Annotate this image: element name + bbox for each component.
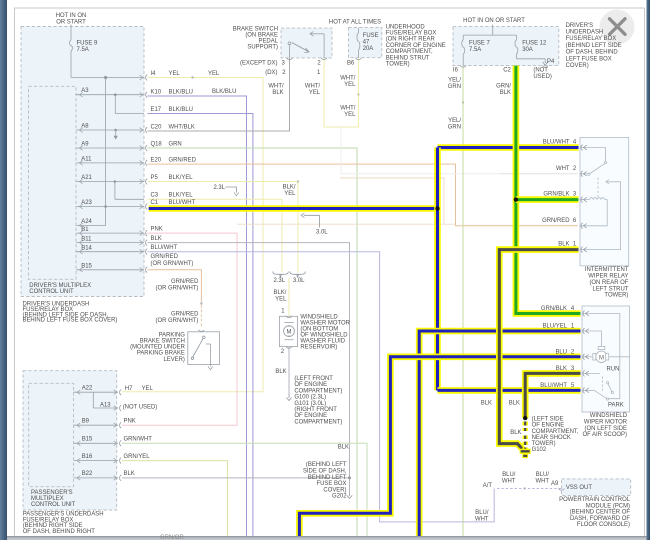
svg-text:LEVER): LEVER) bbox=[163, 357, 184, 363]
svg-text:BLU/: BLU/ bbox=[502, 472, 516, 478]
svg-text:BLK: BLK bbox=[338, 444, 349, 450]
svg-text:I6: I6 bbox=[453, 68, 459, 74]
svg-text:FUSE 7: FUSE 7 bbox=[469, 40, 490, 46]
svg-text:(OR GRN/WHT): (OR GRN/WHT) bbox=[156, 286, 199, 292]
svg-text:COVER): COVER) bbox=[323, 487, 346, 493]
svg-text:COMPARTMENT): COMPARTMENT) bbox=[294, 388, 342, 394]
svg-text:TOWER): TOWER) bbox=[386, 62, 410, 68]
svg-text:COMPARTMENT,: COMPARTMENT, bbox=[532, 429, 579, 435]
svg-text:WHT/: WHT/ bbox=[268, 84, 284, 90]
svg-text:YEL/: YEL/ bbox=[448, 78, 461, 84]
svg-text:POWERTRAIN CONTROL: POWERTRAIN CONTROL bbox=[559, 497, 631, 503]
svg-text:(EXCEPT DX): (EXCEPT DX) bbox=[240, 60, 278, 66]
svg-text:2: 2 bbox=[573, 166, 576, 172]
svg-text:BLK: BLK bbox=[510, 430, 521, 436]
svg-text:BLK: BLK bbox=[500, 90, 511, 96]
svg-text:BRAKE SWITCH: BRAKE SWITCH bbox=[140, 339, 185, 345]
svg-text:BEHIND STRUT: BEHIND STRUT bbox=[386, 55, 430, 61]
svg-text:BLK/BLU: BLK/BLU bbox=[169, 89, 193, 95]
svg-text:30A: 30A bbox=[522, 47, 533, 53]
svg-text:(LEFT SIDE: (LEFT SIDE bbox=[532, 417, 564, 423]
svg-text:(ON REAR OF: (ON REAR OF bbox=[589, 280, 628, 286]
svg-text:B22: B22 bbox=[82, 471, 93, 477]
svg-text:OF ENGINE: OF ENGINE bbox=[294, 413, 327, 419]
svg-text:BLU: BLU bbox=[555, 349, 567, 355]
svg-text:20A: 20A bbox=[363, 46, 374, 52]
svg-text:UNDERDASH: UNDERDASH bbox=[566, 30, 604, 36]
svg-text:2: 2 bbox=[317, 60, 320, 66]
svg-text:WHT/: WHT/ bbox=[305, 84, 321, 90]
svg-text:BLK: BLK bbox=[151, 236, 162, 242]
svg-text:(DX): (DX) bbox=[265, 70, 277, 76]
svg-text:BLK: BLK bbox=[124, 471, 135, 477]
svg-text:WHT/: WHT/ bbox=[340, 106, 356, 112]
svg-text:E17: E17 bbox=[151, 107, 162, 113]
svg-text:YEL: YEL bbox=[275, 296, 287, 302]
svg-text:H7: H7 bbox=[125, 386, 133, 392]
svg-text:FUSE 12: FUSE 12 bbox=[522, 40, 546, 46]
svg-text:BLK/YEL: BLK/YEL bbox=[169, 175, 194, 181]
svg-text:HOT IN ON: HOT IN ON bbox=[56, 13, 87, 19]
svg-text:(RIGHT FRONT: (RIGHT FRONT bbox=[294, 407, 337, 413]
svg-text:CONTROL UNIT: CONTROL UNIT bbox=[31, 502, 76, 508]
svg-text:BLK/: BLK/ bbox=[274, 290, 287, 296]
svg-text:PARK: PARK bbox=[608, 403, 624, 409]
svg-text:A3: A3 bbox=[81, 88, 89, 94]
svg-text:B11: B11 bbox=[81, 236, 92, 242]
svg-text:2: 2 bbox=[281, 349, 284, 355]
svg-text:2: 2 bbox=[282, 70, 285, 76]
svg-text:A9: A9 bbox=[81, 142, 89, 148]
svg-text:OF DASH, BEHIND RIGHT: OF DASH, BEHIND RIGHT bbox=[23, 529, 96, 535]
svg-text:7.5A: 7.5A bbox=[77, 47, 89, 53]
svg-text:BLK: BLK bbox=[556, 366, 567, 372]
svg-text:BLU/WHT: BLU/WHT bbox=[151, 245, 178, 251]
svg-text:SUPPORT): SUPPORT) bbox=[247, 45, 278, 51]
svg-text:MODULE (PCM): MODULE (PCM) bbox=[586, 503, 630, 509]
svg-text:CONTROL UNIT: CONTROL UNIT bbox=[29, 289, 74, 295]
svg-text:B16: B16 bbox=[82, 454, 93, 460]
svg-text:TOWER): TOWER) bbox=[532, 441, 556, 447]
svg-text:PNK: PNK bbox=[151, 226, 163, 232]
svg-text:RESERVOIR): RESERVOIR) bbox=[300, 345, 337, 351]
svg-text:BLK: BLK bbox=[509, 401, 520, 407]
svg-text:TOWER): TOWER) bbox=[604, 293, 628, 299]
svg-text:NEAR SHOCK: NEAR SHOCK bbox=[532, 435, 571, 441]
svg-text:BEHIND LEFT FUSE BOX COVER): BEHIND LEFT FUSE BOX COVER) bbox=[23, 318, 118, 324]
svg-text:OF ENGINE: OF ENGINE bbox=[532, 423, 565, 429]
svg-text:GRN/RED: GRN/RED bbox=[169, 158, 196, 164]
svg-text:YEL: YEL bbox=[309, 90, 321, 96]
svg-text:GRN/: GRN/ bbox=[496, 84, 511, 90]
svg-text:P4: P4 bbox=[547, 59, 555, 65]
svg-text:COMPARTMENT): COMPARTMENT) bbox=[294, 419, 342, 425]
svg-text:(ON RIGHT REAR: (ON RIGHT REAR bbox=[386, 37, 436, 43]
svg-text:YEL: YEL bbox=[142, 386, 154, 392]
svg-text:DASH, FORWARD OF: DASH, FORWARD OF bbox=[570, 516, 630, 522]
svg-text:A9: A9 bbox=[551, 481, 559, 487]
svg-text:(NOT: (NOT bbox=[533, 68, 548, 74]
svg-text:HOT AT ALL TIMES: HOT AT ALL TIMES bbox=[329, 20, 381, 26]
svg-text:WHT/BLK: WHT/BLK bbox=[169, 124, 195, 130]
svg-text:OF ENGINE: OF ENGINE bbox=[294, 382, 327, 388]
svg-text:BLK: BLK bbox=[558, 242, 569, 248]
svg-text:A22: A22 bbox=[82, 385, 93, 391]
svg-text:B6: B6 bbox=[347, 60, 355, 66]
svg-text:PARKING BRAKE: PARKING BRAKE bbox=[137, 351, 185, 357]
svg-text:G102: G102 bbox=[532, 447, 547, 453]
svg-text:7.5A: 7.5A bbox=[469, 47, 481, 53]
svg-text:FUSE BOX: FUSE BOX bbox=[316, 481, 346, 487]
svg-text:BLU/: BLU/ bbox=[536, 472, 550, 478]
svg-text:YEL: YEL bbox=[344, 112, 356, 118]
svg-text:UNDERHOOD: UNDERHOOD bbox=[386, 24, 425, 30]
svg-text:FUSE 9: FUSE 9 bbox=[77, 40, 98, 46]
svg-text:HOT IN ON OR START: HOT IN ON OR START bbox=[463, 18, 525, 24]
svg-text:PARKING: PARKING bbox=[159, 332, 186, 338]
svg-text:OF AIR SCOOP): OF AIR SCOOP) bbox=[582, 432, 627, 438]
svg-text:P5: P5 bbox=[151, 175, 159, 181]
svg-text:(BEHIND LEFT SIDE: (BEHIND LEFT SIDE bbox=[566, 43, 622, 49]
svg-text:C20: C20 bbox=[151, 124, 163, 130]
svg-text:OF DASH, BEHIND: OF DASH, BEHIND bbox=[566, 50, 618, 56]
svg-text:YEL: YEL bbox=[169, 71, 181, 77]
svg-text:2.3L: 2.3L bbox=[213, 185, 225, 191]
svg-text:COVER): COVER) bbox=[566, 63, 589, 69]
svg-text:3.0L: 3.0L bbox=[316, 230, 328, 236]
svg-text:M: M bbox=[287, 330, 292, 336]
svg-text:GRN: GRN bbox=[169, 141, 182, 147]
svg-text:A8: A8 bbox=[81, 124, 89, 130]
svg-text:GRN/OR: GRN/OR bbox=[160, 535, 184, 540]
svg-text:(LEFT FRONT: (LEFT FRONT bbox=[294, 376, 333, 382]
svg-text:WHT: WHT bbox=[535, 479, 549, 485]
svg-text:USED): USED) bbox=[533, 74, 551, 80]
svg-text:FLOOR CONSOLE): FLOOR CONSOLE) bbox=[577, 522, 630, 528]
svg-text:(MOUNTED UNDER: (MOUNTED UNDER bbox=[130, 345, 185, 351]
svg-text:GRN: GRN bbox=[448, 124, 461, 130]
svg-text:BLK: BLK bbox=[275, 369, 286, 375]
svg-text:DRIVER'S: DRIVER'S bbox=[566, 23, 594, 29]
svg-text:LEFT STRUT: LEFT STRUT bbox=[593, 286, 629, 292]
svg-text:BLU/WHT: BLU/WHT bbox=[543, 140, 570, 146]
svg-text:BLK: BLK bbox=[272, 90, 283, 96]
svg-text:GRN/RED: GRN/RED bbox=[171, 312, 198, 318]
svg-text:GRN/YEL: GRN/YEL bbox=[124, 454, 151, 460]
svg-text:WHT: WHT bbox=[475, 516, 489, 522]
svg-text:GRN/BLK: GRN/BLK bbox=[541, 306, 567, 312]
svg-text:A11: A11 bbox=[81, 156, 92, 162]
svg-text:G101 (3.0L): G101 (3.0L) bbox=[294, 401, 326, 407]
svg-text:(OR GRN/WHT): (OR GRN/WHT) bbox=[151, 261, 194, 267]
svg-text:YEL: YEL bbox=[284, 191, 296, 197]
svg-text:GRN/RED: GRN/RED bbox=[542, 218, 569, 224]
svg-text:(BEHIND CENTER OF: (BEHIND CENTER OF bbox=[570, 510, 631, 516]
svg-text:(BEHIND LEFT: (BEHIND LEFT bbox=[306, 462, 347, 468]
svg-text:FUSE/RELAY BOX: FUSE/RELAY BOX bbox=[566, 36, 617, 42]
svg-text:C3: C3 bbox=[151, 193, 159, 199]
svg-text:OR START: OR START bbox=[56, 20, 86, 26]
svg-text:WIPER MOTOR: WIPER MOTOR bbox=[584, 419, 628, 425]
svg-text:GRN/BLK: GRN/BLK bbox=[543, 192, 569, 198]
svg-text:RUN: RUN bbox=[607, 366, 620, 372]
svg-text:FUSE/RELAY BOX: FUSE/RELAY BOX bbox=[386, 31, 437, 37]
svg-text:WHT/: WHT/ bbox=[340, 76, 356, 82]
svg-text:PNK: PNK bbox=[124, 419, 136, 425]
svg-text:Q18: Q18 bbox=[151, 141, 163, 147]
svg-text:WHT: WHT bbox=[502, 479, 516, 485]
svg-text:C2: C2 bbox=[503, 68, 511, 74]
svg-text:BLU/WHT: BLU/WHT bbox=[169, 200, 196, 206]
svg-text:CORNER OF ENGINE: CORNER OF ENGINE bbox=[386, 43, 446, 49]
svg-text:BLK/BLU: BLK/BLU bbox=[212, 89, 236, 95]
svg-text:WINDSHIELD: WINDSHIELD bbox=[590, 413, 627, 419]
svg-text:COMPARTMENT,: COMPARTMENT, bbox=[386, 49, 433, 55]
svg-text:VSS OUT: VSS OUT bbox=[566, 485, 592, 491]
svg-text:47: 47 bbox=[363, 40, 370, 46]
svg-text:(NOT USED): (NOT USED) bbox=[123, 405, 158, 411]
svg-text:FUSE: FUSE bbox=[363, 33, 379, 39]
svg-text:K10: K10 bbox=[151, 89, 162, 95]
svg-text:2.3L: 2.3L bbox=[273, 278, 285, 284]
svg-text:G202: G202 bbox=[332, 494, 347, 500]
svg-text:E20: E20 bbox=[151, 158, 162, 164]
svg-text:GRN/RED: GRN/RED bbox=[171, 279, 198, 285]
svg-text:LEFT FUSE BOX: LEFT FUSE BOX bbox=[566, 56, 612, 62]
svg-text:I4: I4 bbox=[151, 71, 157, 77]
svg-text:BLK/YEL: BLK/YEL bbox=[169, 193, 194, 199]
svg-text:SIDE OF DASH,: SIDE OF DASH, bbox=[303, 469, 347, 475]
svg-text:C1: C1 bbox=[151, 200, 159, 206]
svg-text:2: 2 bbox=[571, 349, 574, 355]
svg-text:B15: B15 bbox=[82, 437, 93, 443]
svg-text:BLU/YEL: BLU/YEL bbox=[543, 324, 568, 330]
svg-text:(OR GRN/WHT): (OR GRN/WHT) bbox=[156, 318, 199, 324]
svg-text:BLU/: BLU/ bbox=[475, 510, 489, 516]
svg-text:3.0L: 3.0L bbox=[293, 278, 305, 284]
svg-text:A24: A24 bbox=[81, 219, 92, 225]
svg-text:A/T: A/T bbox=[483, 483, 493, 489]
svg-text:A21: A21 bbox=[81, 175, 92, 181]
svg-text:B1: B1 bbox=[81, 227, 89, 233]
svg-text:B9: B9 bbox=[82, 419, 90, 425]
svg-text:BLK: BLK bbox=[481, 401, 492, 407]
svg-text:BLU/WHT: BLU/WHT bbox=[540, 383, 567, 389]
svg-text:WHT: WHT bbox=[556, 166, 570, 172]
svg-text:A13: A13 bbox=[100, 402, 111, 408]
svg-text:INTERMITTENT: INTERMITTENT bbox=[585, 267, 629, 273]
svg-text:BLK/BLU: BLK/BLU bbox=[169, 107, 193, 113]
svg-text:WIPER RELAY: WIPER RELAY bbox=[588, 274, 628, 280]
svg-text:GRN/RED: GRN/RED bbox=[151, 254, 178, 260]
svg-text:BEHIND LEFT: BEHIND LEFT bbox=[308, 475, 347, 481]
svg-text:G100 (2.3L): G100 (2.3L) bbox=[294, 395, 326, 401]
svg-text:YEL: YEL bbox=[344, 82, 356, 88]
svg-text:GRN/WHT: GRN/WHT bbox=[124, 437, 153, 443]
svg-text:B14: B14 bbox=[81, 245, 92, 251]
svg-text:(ON LEFT SIDE: (ON LEFT SIDE bbox=[585, 426, 627, 432]
svg-text:YEL: YEL bbox=[208, 71, 220, 77]
svg-text:M: M bbox=[599, 355, 604, 361]
svg-text:A23: A23 bbox=[81, 200, 92, 206]
svg-text:BLK/: BLK/ bbox=[283, 185, 296, 191]
svg-text:B15: B15 bbox=[81, 264, 92, 270]
svg-text:GRN: GRN bbox=[448, 84, 461, 90]
svg-text:YEL/: YEL/ bbox=[448, 118, 461, 124]
